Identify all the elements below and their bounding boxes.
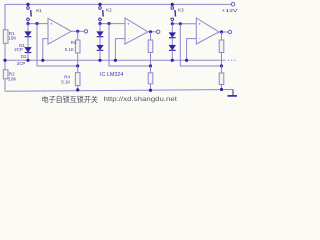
node stage3 input wire xyxy=(172,23,196,25)
output terminal stage3 xyxy=(228,30,231,33)
wire inverting input stage1 xyxy=(43,39,48,61)
output terminal stage1 xyxy=(84,30,87,33)
resistor R3 xyxy=(65,31,80,66)
node stage2 input wire xyxy=(100,23,125,25)
resistor R4 xyxy=(61,66,80,90)
wire feedback to +input stage3 xyxy=(180,24,221,66)
diode D4 xyxy=(97,37,104,61)
switch K1 xyxy=(26,3,42,24)
diode D2 xyxy=(17,37,32,66)
wire output stage3 xyxy=(219,31,228,33)
svg-text:2CP: 2CP xyxy=(17,61,26,66)
ground xyxy=(228,90,238,96)
node bus / left-rail junction xyxy=(3,59,6,62)
op-amp U1A xyxy=(48,18,71,44)
svg-text:10K: 10K xyxy=(8,76,17,81)
svg-text:5.1K: 5.1K xyxy=(61,80,70,85)
output terminal stage2 xyxy=(157,30,160,33)
resistor R5 xyxy=(148,32,153,66)
svg-text:K2: K2 xyxy=(106,8,112,13)
diode D3 xyxy=(97,24,104,37)
wire left rail upper xyxy=(4,4,6,29)
node stage1 input wire xyxy=(28,23,48,25)
svg-text:R3: R3 xyxy=(71,40,77,45)
wire left rail mid xyxy=(4,43,6,70)
wire output stage1 xyxy=(71,30,84,32)
svg-text:+: + xyxy=(127,22,130,27)
+12V terminal xyxy=(222,3,239,15)
svg-text:+: + xyxy=(198,22,201,27)
diode D6 xyxy=(169,38,176,61)
svg-text:K3: K3 xyxy=(178,8,184,13)
op-amp U1C xyxy=(196,18,219,44)
wire reference bus xyxy=(5,59,225,61)
wire feedback to +input stage1 xyxy=(37,24,78,66)
svg-text:http://xd.shangdu.net: http://xd.shangdu.net xyxy=(104,96,178,103)
resistor R7 xyxy=(219,32,224,66)
wire feedback to +input stage2 xyxy=(109,24,151,66)
resistor R8 xyxy=(219,66,224,90)
resistor R6 xyxy=(148,66,153,90)
svg-text:5.1K: 5.1K xyxy=(65,47,74,52)
wire inverting input stage2 xyxy=(115,39,125,61)
wire bottom ground rail xyxy=(5,90,233,92)
svg-text:IC LM324: IC LM324 xyxy=(100,72,123,78)
svg-text:K1: K1 xyxy=(36,8,42,13)
diode D5 xyxy=(169,24,176,38)
svg-text:15K: 15K xyxy=(8,36,17,41)
switch K3 xyxy=(171,3,184,24)
svg-text:电子自锁互锁开关: 电子自锁互锁开关 xyxy=(42,95,99,104)
svg-text:R4: R4 xyxy=(64,74,70,79)
svg-text:+: + xyxy=(50,22,53,27)
wire output stage2 xyxy=(148,31,157,33)
resistor R1 xyxy=(3,30,17,44)
diode D1 xyxy=(14,24,31,53)
wire top +12V rail xyxy=(5,3,231,5)
switch K2 xyxy=(98,3,112,24)
svg-text:2CP: 2CP xyxy=(14,47,23,52)
svg-text:D2: D2 xyxy=(21,54,27,59)
op-amp U1B xyxy=(125,18,148,44)
wire left rail lower xyxy=(4,79,6,92)
resistor R2 xyxy=(3,70,17,82)
svg-text:+12V: +12V xyxy=(222,8,239,14)
wire inverting input stage3 xyxy=(187,39,197,61)
bus continuation dots xyxy=(228,60,235,61)
